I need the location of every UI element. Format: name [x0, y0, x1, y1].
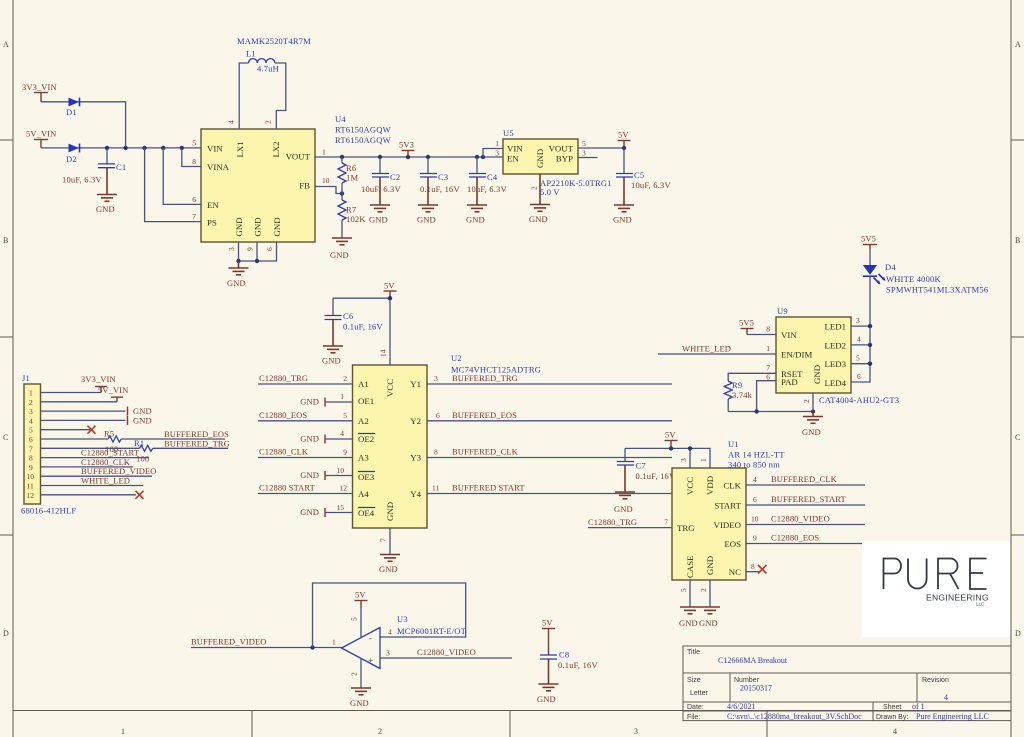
wire VOUT rail: [315, 156, 503, 158]
svg-text:GND: GND: [234, 217, 244, 236]
svg-text:20150317: 20150317: [740, 684, 772, 693]
svg-text:5: 5: [582, 139, 586, 148]
logo background: [862, 541, 1010, 637]
svg-text:1: 1: [766, 344, 770, 353]
wire feedback loop: [313, 583, 466, 648]
svg-text:BYP: BYP: [556, 154, 573, 164]
ground under opamp: [350, 688, 371, 708]
wire J1 pin11: [41, 485, 144, 487]
port 5V5 at D4: [861, 234, 877, 266]
svg-text:GND: GND: [812, 365, 822, 384]
svg-text:BUFFERED_TRG: BUFFERED_TRG: [452, 373, 518, 383]
svg-text:VIN: VIN: [507, 144, 523, 154]
U5 gnd stem: [539, 174, 541, 205]
svg-text:15: 15: [337, 503, 345, 512]
svg-text:NC: NC: [729, 567, 741, 577]
junction dots on VOUT rail: [340, 155, 344, 159]
svg-text:EN: EN: [207, 200, 219, 210]
svg-text:C12880_VIDEO: C12880_VIDEO: [771, 514, 830, 524]
svg-text:VINA: VINA: [207, 162, 230, 172]
svg-text:5V5: 5V5: [861, 234, 876, 244]
wire J1 pin9: [41, 466, 134, 468]
svg-text:10uF, 6.3V: 10uF, 6.3V: [361, 184, 401, 194]
svg-text:Drawn By:: Drawn By:: [876, 714, 908, 721]
U2 right pin numbers: [432, 374, 440, 493]
svg-text:WHITE 4000K: WHITE 4000K: [886, 274, 942, 284]
svg-text:3: 3: [29, 407, 33, 416]
svg-text:VOUT: VOUT: [286, 152, 311, 162]
svg-text:SPMWHT541ML3XATM56: SPMWHT541ML3XATM56: [886, 285, 988, 295]
svg-text:6: 6: [29, 435, 33, 444]
U9 led wires: [851, 277, 872, 382]
svg-text:1: 1: [121, 727, 125, 736]
svg-text:5: 5: [350, 617, 359, 621]
svg-text:4.7uH: 4.7uH: [257, 64, 279, 74]
svg-text:LX2: LX2: [271, 141, 281, 157]
resistor R5: [104, 429, 121, 455]
svg-text:R7: R7: [346, 205, 356, 215]
port 5V at U5 output: [618, 130, 631, 149]
svg-text:2: 2: [530, 186, 539, 190]
svg-text:PS: PS: [207, 218, 217, 228]
svg-text:BUFFERED_CLK: BUFFERED_CLK: [771, 474, 838, 484]
svg-text:CAT4004-AHU2-GT3: CAT4004-AHU2-GT3: [819, 395, 899, 405]
junction dots on led bus: [868, 324, 872, 328]
svg-text:8: 8: [434, 448, 438, 457]
op-amp U3: [342, 628, 381, 669]
svg-text:of 1: of 1: [912, 702, 925, 711]
svg-text:BUFFERED_VIDEO: BUFFERED_VIDEO: [191, 637, 267, 647]
svg-text:4: 4: [340, 429, 344, 438]
svg-text:0.1uF, 16V: 0.1uF, 16V: [420, 184, 460, 194]
svg-text:Y4: Y4: [410, 489, 421, 499]
svg-text:3: 3: [856, 316, 860, 325]
U7 output wires: [746, 485, 865, 572]
junction dots on U9 gnd rail: [754, 409, 758, 413]
wire U9 gnd pin: [812, 393, 814, 412]
svg-text:EN/DIM: EN/DIM: [781, 350, 812, 360]
svg-text:-: -: [369, 633, 372, 643]
svg-text:R5: R5: [104, 429, 114, 439]
opamp gnd pin: [360, 658, 362, 688]
port 5V_VIN: [26, 129, 56, 148]
ground under U7 case: [679, 607, 700, 628]
svg-text:C12880_TRG: C12880_TRG: [259, 373, 308, 383]
svg-text:7: 7: [29, 444, 33, 453]
svg-text:4: 4: [857, 335, 861, 344]
svg-text:5V3: 5V3: [399, 140, 414, 150]
capacitor C5: [616, 148, 671, 205]
svg-text:6: 6: [436, 411, 440, 420]
wire C12880_TRG into U7: [588, 527, 672, 529]
svg-text:B: B: [3, 236, 8, 245]
svg-text:6: 6: [766, 373, 770, 382]
svg-text:GND: GND: [300, 397, 319, 407]
wire BYP stub: [578, 157, 598, 159]
svg-text:7: 7: [766, 363, 770, 372]
svg-text:2: 2: [378, 727, 382, 736]
wire pin6 cont: [121, 438, 225, 440]
svg-text:8: 8: [751, 562, 755, 571]
svg-text:12: 12: [340, 484, 348, 493]
svg-text:GND: GND: [802, 427, 821, 437]
wire PS branch: [145, 148, 201, 222]
ground under C5: [613, 205, 634, 225]
svg-text:4: 4: [227, 120, 236, 124]
svg-text:2: 2: [699, 588, 708, 592]
svg-text:GND: GND: [350, 698, 369, 708]
wire J1 pin12: [41, 494, 137, 496]
svg-text:A2: A2: [358, 416, 369, 426]
svg-text:10: 10: [337, 466, 345, 475]
no connect X pin12: [136, 491, 144, 499]
port 5V above U7: [665, 430, 678, 449]
svg-text:J1: J1: [22, 373, 30, 383]
svg-text:CASE: CASE: [685, 556, 695, 579]
wire J1 pin10: [41, 475, 153, 477]
svg-text:VCC: VCC: [385, 379, 395, 397]
svg-text:U4: U4: [335, 114, 346, 124]
capacitor C7: [617, 448, 676, 492]
svg-text:C12880_TRG: C12880_TRG: [588, 517, 637, 527]
svg-text:D1: D1: [66, 107, 77, 117]
svg-text:+: +: [368, 655, 373, 665]
svg-text:0.1uF, 16V: 0.1uF, 16V: [343, 322, 383, 332]
port 5V above U2: [384, 281, 397, 299]
svg-text:7: 7: [664, 518, 668, 527]
U5 pin numbers: [495, 139, 586, 190]
svg-text:GND: GND: [133, 415, 152, 425]
capacitor C6: [325, 298, 384, 346]
svg-text:LX1: LX1: [235, 141, 245, 157]
wire J1 pin4: [41, 419, 126, 421]
svg-text:VDD: VDD: [705, 476, 715, 495]
svg-text:R1: R1: [134, 438, 144, 448]
svg-text:8: 8: [29, 454, 33, 463]
svg-text:68016-412HLF: 68016-412HLF: [21, 506, 76, 516]
svg-text:EOS: EOS: [724, 539, 741, 549]
svg-text:5V: 5V: [542, 618, 553, 628]
svg-text:LLC: LLC: [976, 602, 985, 607]
svg-text:GND: GND: [96, 204, 115, 214]
wire PAD: [757, 381, 776, 412]
svg-text:GND: GND: [614, 504, 633, 514]
ground under U2: [379, 555, 400, 575]
svg-text:5V: 5V: [355, 590, 366, 600]
wire J1 pin1: [41, 392, 102, 394]
U4 pin numbers: [192, 120, 330, 251]
wire RSET: [728, 373, 776, 380]
svg-text:12: 12: [27, 491, 35, 500]
svg-text:3: 3: [227, 247, 236, 251]
gnd port at J1 pin4: [128, 415, 152, 425]
svg-text:5: 5: [679, 588, 688, 592]
wire U5 VIN step: [483, 149, 503, 158]
capacitor C2: [361, 157, 401, 205]
wire J1 pin5: [41, 429, 91, 431]
svg-text:1: 1: [495, 139, 499, 148]
svg-text:5V: 5V: [618, 130, 629, 140]
svg-text:C12880_EOS: C12880_EOS: [259, 410, 307, 420]
svg-text:PAD: PAD: [781, 377, 798, 387]
port 5V5 at U9: [739, 318, 754, 335]
no connect X pin5: [88, 426, 96, 434]
svg-text:5: 5: [192, 139, 196, 148]
gnd port at OE4: [300, 507, 352, 517]
U7 right pin numbers: [751, 475, 759, 571]
ground under R7: [330, 238, 352, 260]
svg-text:D: D: [1015, 629, 1021, 638]
svg-text:GND: GND: [466, 215, 485, 225]
svg-text:3: 3: [679, 458, 688, 462]
svg-text:LED1: LED1: [825, 322, 847, 332]
ground under C1: [96, 195, 117, 215]
svg-text:10uF, 6.3V: 10uF, 6.3V: [62, 175, 102, 185]
svg-text:CLK: CLK: [723, 481, 741, 491]
svg-text:GND: GND: [369, 215, 388, 225]
svg-text:5V_VIN: 5V_VIN: [98, 385, 128, 395]
led D4: [863, 265, 886, 285]
capacitor C4: [467, 157, 507, 205]
svg-text:3: 3: [634, 727, 638, 736]
svg-text:10: 10: [322, 176, 330, 185]
wire VOUT of U5: [578, 147, 624, 149]
svg-text:C12880 START: C12880 START: [259, 483, 316, 493]
wire J1 pin6: [41, 438, 109, 440]
svg-text:C12880_EOS: C12880_EOS: [771, 533, 819, 543]
svg-text:4: 4: [29, 416, 33, 425]
svg-text:GND: GND: [330, 250, 349, 260]
svg-text:5V5: 5V5: [739, 318, 754, 328]
svg-text:WHITE_LED: WHITE_LED: [81, 476, 130, 486]
svg-text:C4: C4: [487, 172, 498, 182]
svg-text:D: D: [3, 629, 9, 638]
svg-text:A3: A3: [358, 453, 369, 463]
svg-text:RT6150AGQW: RT6150AGQW: [335, 135, 391, 145]
svg-text:C12880_CLK: C12880_CLK: [259, 447, 309, 457]
junction dots on U7 vcc rail: [669, 446, 673, 450]
U2 gnd pin wire: [389, 528, 391, 555]
svg-text:4: 4: [893, 727, 897, 736]
ground under C3: [417, 205, 438, 225]
svg-text:5V: 5V: [665, 430, 676, 440]
svg-text:WHITE_LED: WHITE_LED: [682, 344, 731, 354]
svg-text:FB: FB: [299, 181, 310, 191]
svg-text:0.1uF, 16V: 0.1uF, 16V: [636, 471, 676, 481]
svg-text:U1: U1: [728, 439, 739, 449]
wire VIN U9: [747, 334, 776, 336]
svg-text:VOUT: VOUT: [549, 144, 574, 154]
svg-text:GND: GND: [705, 556, 715, 575]
svg-text:10uF, 6.3V: 10uF, 6.3V: [631, 180, 671, 190]
svg-text:Sheet: Sheet: [883, 704, 901, 711]
regulator U5: [503, 139, 578, 174]
junction dots on VIN rail: [105, 146, 109, 150]
svg-text:LED4: LED4: [825, 378, 847, 388]
U9 right pin numbers: [856, 316, 861, 381]
ground under U5: [529, 205, 550, 225]
svg-text:OE4: OE4: [358, 508, 375, 518]
diode D1: [66, 98, 80, 117]
port 5V_VIN at J1: [98, 385, 128, 402]
svg-text:L1: L1: [246, 49, 256, 59]
wire EN branch: [163, 148, 201, 205]
svg-text:6: 6: [857, 372, 861, 381]
svg-text:4: 4: [753, 475, 757, 484]
svg-text:7: 7: [379, 538, 388, 542]
svg-text:AR 14 HZL-TT: AR 14 HZL-TT: [728, 450, 785, 460]
svg-text:1: 1: [29, 389, 33, 398]
svg-text:10: 10: [751, 515, 759, 524]
logo PURE letter R: [938, 559, 959, 590]
svg-text:C12666MA Breakout: C12666MA Breakout: [718, 656, 788, 665]
svg-text:6: 6: [753, 495, 757, 504]
svg-text:C5: C5: [634, 170, 644, 180]
sensor U7: [672, 468, 746, 580]
svg-text:File:: File:: [687, 714, 700, 721]
svg-text:VIN: VIN: [781, 330, 797, 340]
svg-text:Y3: Y3: [410, 453, 421, 463]
svg-text:C12880_VIDEO: C12880_VIDEO: [417, 647, 476, 657]
connector J1: [24, 384, 41, 504]
svg-text:C2: C2: [390, 172, 400, 182]
resistor R7: [338, 194, 366, 239]
wire J1 pin8: [41, 457, 150, 459]
ground under C4: [466, 205, 487, 225]
svg-text:C3: C3: [438, 172, 448, 182]
svg-text:GND: GND: [613, 215, 632, 225]
svg-text:OE3: OE3: [358, 472, 375, 482]
resistor R1: [134, 438, 153, 464]
svg-text:START: START: [714, 501, 741, 511]
U4 bottom gnd wires: [236, 242, 276, 268]
svg-text:GND: GND: [385, 502, 395, 521]
ground under C8: [537, 684, 559, 704]
svg-text:3V3_VIN: 3V3_VIN: [81, 374, 116, 384]
svg-text:VIN: VIN: [207, 144, 223, 154]
svg-text:3: 3: [434, 374, 438, 383]
capacitor C8: [540, 650, 598, 685]
svg-text:Size: Size: [687, 677, 701, 684]
svg-text:8: 8: [766, 325, 770, 334]
svg-text:Pure Engineering LLC: Pure Engineering LLC: [916, 712, 989, 721]
ground under U7 gnd: [699, 607, 720, 628]
svg-text:A: A: [3, 40, 9, 49]
logo PURE letter E: [970, 559, 987, 590]
svg-text:5V: 5V: [384, 281, 395, 291]
svg-text:4/6/2021: 4/6/2021: [727, 702, 755, 711]
wire J1 pin7: [41, 447, 140, 449]
resistor R6: [338, 157, 358, 194]
port 3V3_VIN: [22, 82, 57, 102]
svg-text:340 to 850 nm: 340 to 850 nm: [728, 460, 780, 470]
svg-text:BUFFERED START: BUFFERED START: [452, 483, 525, 493]
led driver U9: [776, 317, 851, 393]
wire R9 to gnd rail: [728, 411, 813, 413]
wire VCC: [389, 298, 391, 365]
svg-text:Date:: Date:: [687, 704, 704, 711]
ground under C7: [614, 492, 635, 514]
svg-text:GND: GND: [227, 278, 246, 288]
svg-text:D2: D2: [66, 154, 77, 164]
svg-text:Letter: Letter: [690, 690, 709, 697]
wire VINA branch: [182, 148, 201, 167]
svg-text:C6: C6: [343, 311, 353, 321]
ground under C6: [322, 346, 343, 366]
svg-text:1: 1: [322, 148, 326, 157]
ground under U9: [802, 417, 823, 438]
svg-text:4: 4: [388, 628, 392, 637]
gnd port at OE1: [300, 397, 352, 407]
svg-text:5.0 V: 5.0 V: [540, 187, 560, 197]
svg-text:3: 3: [495, 149, 499, 158]
svg-text:OE1: OE1: [358, 396, 374, 406]
no connect X at NC: [758, 565, 767, 574]
ground under C2: [369, 205, 390, 225]
svg-text:B: B: [1015, 236, 1020, 245]
svg-text:9: 9: [343, 448, 347, 457]
svg-text:GND: GND: [272, 217, 282, 236]
svg-text:2: 2: [343, 374, 347, 383]
svg-text:A1: A1: [358, 379, 369, 389]
svg-text:GND: GND: [535, 149, 545, 168]
svg-text:U2: U2: [451, 353, 462, 363]
U7 bottom pin wires: [679, 580, 710, 607]
svg-text:EN: EN: [507, 154, 519, 164]
ground under U4: [227, 268, 249, 288]
svg-text:GND: GND: [300, 434, 319, 444]
svg-text:BUFFERED_CLK: BUFFERED_CLK: [452, 447, 519, 457]
svg-text:GND: GND: [322, 356, 341, 366]
U7 top pin numbers: [679, 458, 708, 462]
logo PURE letter P: [884, 559, 902, 590]
svg-text:BUFFERED_EOS: BUFFERED_EOS: [452, 410, 517, 420]
svg-text:RT6150AGQW: RT6150AGQW: [335, 125, 391, 135]
svg-text:BUFFERED_START: BUFFERED_START: [771, 494, 847, 504]
regulator U4: [201, 129, 315, 242]
svg-text:1: 1: [332, 638, 336, 647]
svg-text:U3: U3: [397, 614, 408, 624]
wire pin7 cont: [153, 447, 228, 449]
svg-text:3V3_VIN: 3V3_VIN: [22, 82, 57, 92]
svg-text:2: 2: [264, 120, 273, 124]
wire FB: [315, 187, 342, 194]
pin numbers U3: [332, 617, 392, 676]
wire J1 pin3: [41, 410, 126, 412]
inductor L1: [246, 49, 279, 74]
U2 input wires: [258, 384, 353, 494]
U2 output wires: [427, 384, 672, 494]
svg-text:3: 3: [582, 149, 586, 158]
svg-text:2: 2: [350, 672, 359, 676]
port 3V3_VIN at J1: [81, 374, 116, 393]
svg-text:10: 10: [27, 472, 35, 481]
svg-text:5V_VIN: 5V_VIN: [26, 129, 56, 139]
svg-text:GND: GND: [253, 217, 263, 236]
svg-text:GND: GND: [417, 215, 436, 225]
svg-text:R9: R9: [732, 380, 742, 390]
svg-text:9: 9: [29, 463, 33, 472]
svg-text:GND: GND: [379, 564, 398, 574]
svg-text:R6: R6: [346, 163, 356, 173]
svg-text:U9: U9: [777, 306, 788, 316]
svg-text:5: 5: [343, 411, 347, 420]
svg-text:9: 9: [246, 247, 255, 251]
logo PURE letter U: [908, 559, 927, 589]
svg-text:GND: GND: [699, 618, 718, 628]
svg-text:C: C: [1015, 433, 1020, 442]
svg-text:LED3: LED3: [825, 359, 847, 369]
